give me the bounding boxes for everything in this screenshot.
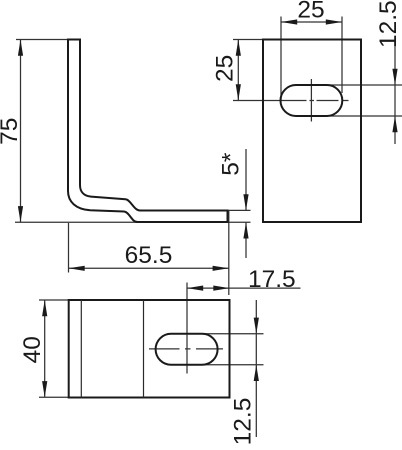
svg-text:5*: 5* [218,152,245,176]
svg-text:25: 25 [212,55,239,82]
svg-text:25: 25 [297,0,324,24]
svg-text:65.5: 65.5 [125,242,173,269]
svg-text:40: 40 [19,336,46,363]
svg-text:12.5: 12.5 [375,0,402,48]
svg-text:75: 75 [0,118,23,145]
svg-text:17.5: 17.5 [248,266,296,293]
svg-text:12.5: 12.5 [230,398,257,446]
